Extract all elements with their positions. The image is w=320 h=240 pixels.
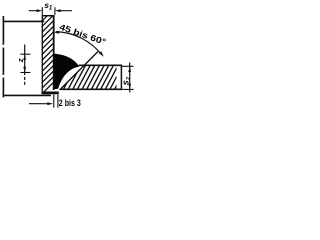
vertical plate bottom edge (42, 92, 59, 95)
arc arrow right (99, 51, 104, 57)
s1 dimension, top: extension ticks (41, 7, 43, 15)
left outline plate (bracket), vertical line (2, 16, 4, 97)
svg-text:2 bis 3: 2 bis 3 (59, 98, 81, 109)
left outline bottom horizontal (3, 94, 51, 96)
s2 dimension arrows (128, 66, 131, 72)
bevel face line with extension (60, 52, 98, 91)
horizontal plate (s2) outline (60, 65, 121, 91)
z dimension ticks (20, 53, 30, 55)
vertical plate (s1) outline (42, 16, 55, 93)
arc arrow left (54, 31, 60, 34)
s1 dimension line left with arrow (29, 10, 38, 12)
left outline top horizontal (3, 20, 45, 22)
z dimension line (24, 45, 26, 76)
s1 dimension line right with arrow (59, 10, 72, 12)
root gap extension lines (53, 94, 55, 107)
vertical plate hatching (40, 7, 56, 96)
horizontal plate hatching (62, 65, 128, 92)
s2 dimension ticks, right (122, 65, 134, 67)
angle arc 45 bis 60 (56, 32, 102, 55)
root gap leader arrow (29, 103, 49, 105)
z dimension arrows (23, 54, 26, 60)
s2 dimension line (129, 62, 131, 92)
svg-text:z: z (16, 58, 25, 63)
weld seam (black fill) (53, 54, 79, 90)
